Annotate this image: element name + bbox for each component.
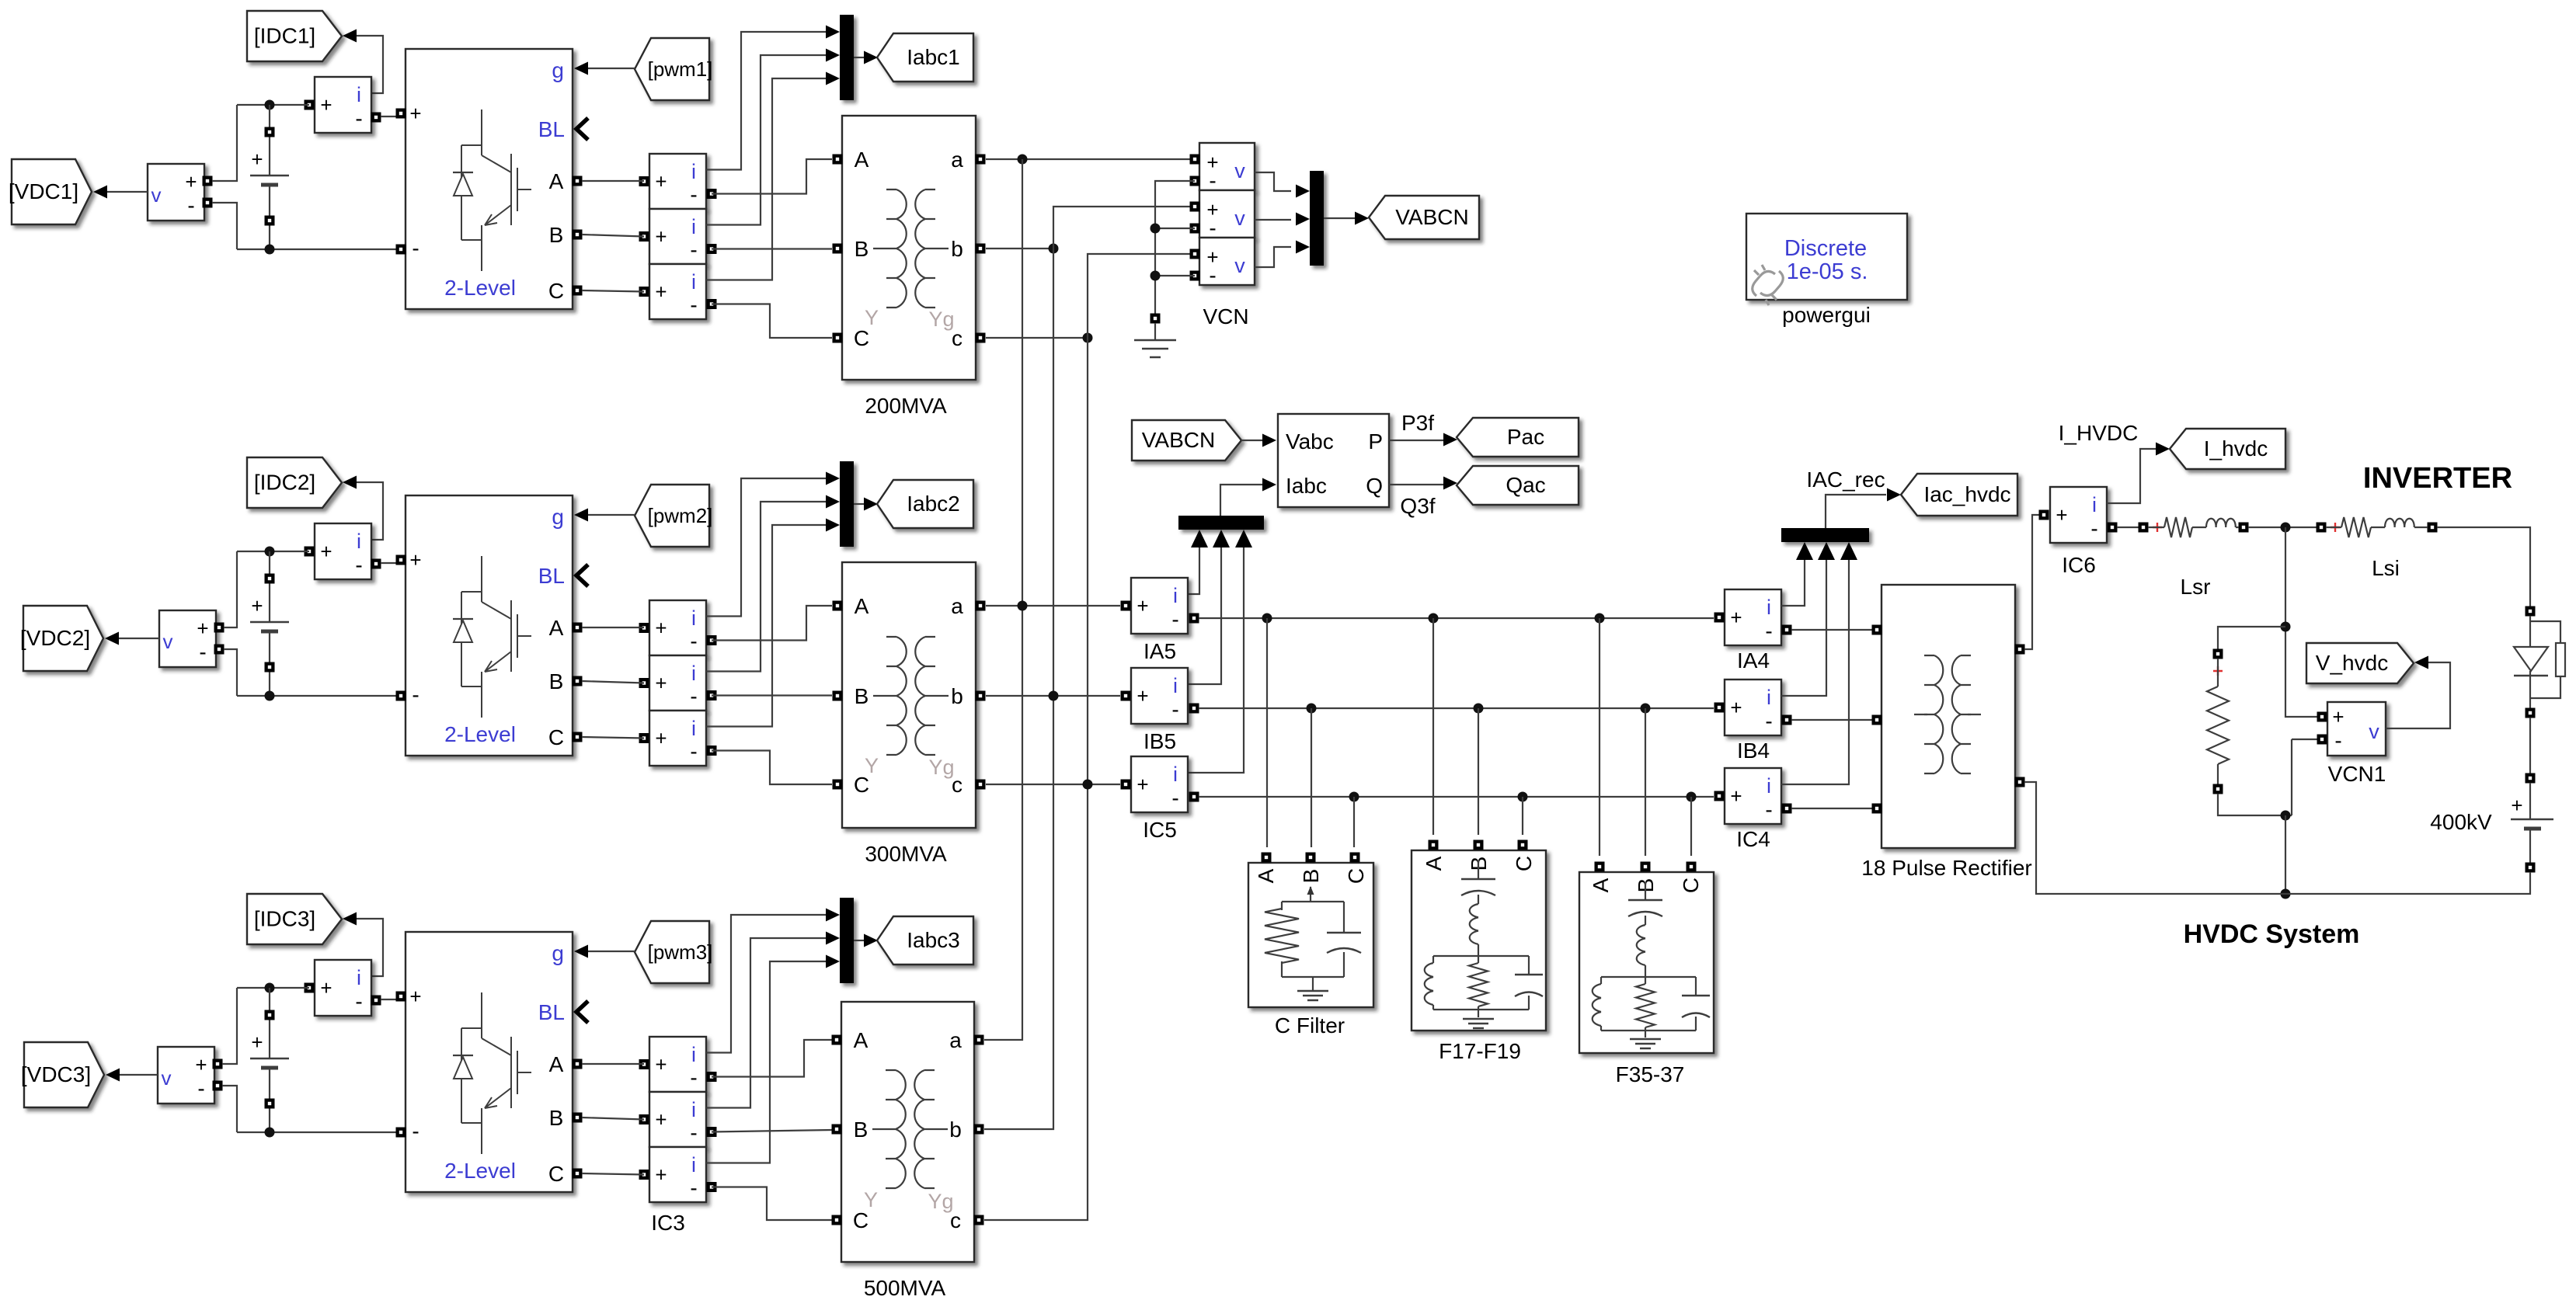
wire U1 C to IC1: [582, 290, 644, 292]
svg-text:-: -: [1209, 216, 1216, 240]
wire DC+ rail to I1: [237, 104, 309, 106]
wire VCN1 v to V_hvdc tag: [2386, 662, 2450, 728]
wire mux output to PQ Iabc input: [1220, 485, 1262, 516]
2-Level3 BL input chevron: [576, 1001, 588, 1023]
wire phase B bus IB5 to IB4: [1199, 707, 1714, 709]
wire bus C to F35-37: [1690, 797, 1692, 856]
wire IA3 to T3 A: [712, 1040, 832, 1077]
filter block F17-F19: [1412, 850, 1546, 1031]
from tag [pwm3]: [635, 921, 709, 983]
wire Lsi to diode branch: [2437, 527, 2530, 607]
svg-text:v: v: [1234, 159, 1245, 182]
svg-text:+: +: [1137, 773, 1148, 796]
current sensor IC4: [1725, 768, 1781, 824]
svg-text:-: -: [1171, 607, 1178, 631]
wire T2 c to IC5: [986, 784, 1120, 785]
2-Level converter U3: [406, 932, 573, 1192]
svg-text:[pwm2]: [pwm2]: [648, 504, 713, 527]
wire IB2 to T2 B: [712, 694, 832, 696]
goto tag Iabc2: [877, 480, 973, 528]
svg-text:C: C: [1679, 878, 1703, 893]
current sensor IA2 (phase A): [649, 600, 706, 655]
wire VCN neutral rail to ground: [1155, 181, 1195, 314]
wire T1 b (phase b): [986, 248, 1053, 249]
wire IA2 to T2 A: [712, 606, 832, 641]
svg-text:Yg: Yg: [928, 1190, 953, 1213]
svg-text:[pwm3]: [pwm3]: [648, 940, 713, 964]
svg-text:[VDC3]: [VDC3]: [21, 1062, 91, 1086]
wire I2 i-output to [IDC2]: [357, 482, 383, 540]
svg-text:C: C: [548, 1162, 564, 1186]
wire IC5 i to mux M5: [1189, 547, 1244, 773]
wire Lsr to Lsi junction: [2248, 527, 2317, 528]
svg-text:+: +: [2332, 705, 2344, 728]
voltage sensor VCN b: [1199, 190, 1255, 238]
svg-text:IA4: IA4: [1737, 648, 1770, 673]
goto tag [VDC2]: [23, 606, 103, 671]
wire U3 A to IA3: [582, 1063, 644, 1065]
svg-text:IC4: IC4: [1736, 827, 1770, 851]
svg-text:-: -: [355, 106, 362, 130]
svg-text:BL: BL: [538, 564, 565, 588]
wire IB3 i to mux3: [706, 938, 827, 1108]
svg-text:+: +: [1137, 684, 1148, 707]
svg-text:Q: Q: [1366, 474, 1383, 498]
svg-text:500MVA: 500MVA: [864, 1276, 946, 1300]
svg-text:+: +: [1730, 606, 1742, 629]
voltage sensor VCN c: [1199, 238, 1255, 285]
voltage sensor V3: [158, 1047, 214, 1104]
svg-text:P: P: [1368, 429, 1383, 454]
svg-text:g: g: [552, 58, 564, 82]
goto tag Pac: [1457, 418, 1579, 457]
wire U2 C to IC2: [582, 737, 644, 739]
svg-text:+: +: [1730, 784, 1742, 808]
wire IC6 i to I_hvdc tag: [2107, 449, 2156, 503]
svg-text:+: +: [2511, 794, 2522, 817]
wire I3 i-output to [IDC3]: [357, 919, 383, 976]
svg-text:i: i: [1173, 763, 1178, 786]
current sensor IB5: [1131, 668, 1188, 724]
svg-text:+: +: [320, 540, 332, 563]
svg-text:Y: Y: [864, 1188, 878, 1211]
svg-text:INVERTER: INVERTER: [2363, 462, 2512, 495]
goto tag [IDC3]: [247, 894, 342, 944]
svg-text:i: i: [691, 270, 696, 294]
goto tag Qac: [1457, 466, 1579, 505]
svg-text:-: -: [187, 193, 194, 217]
svg-text:+: +: [655, 672, 667, 695]
goto tag I_hvdc: [2170, 429, 2285, 469]
wire I3 to 2-Level3 + input: [381, 999, 396, 1000]
svg-text:-: -: [199, 640, 206, 664]
wire bus A to C Filter: [1266, 618, 1268, 847]
svg-text:A: A: [1422, 856, 1446, 871]
wire IA2 i to mux2: [706, 478, 827, 617]
svg-text:+: +: [251, 594, 263, 617]
svg-text:Q3f: Q3f: [1400, 494, 1435, 518]
current sensor IC2 (phase C): [649, 711, 706, 766]
DC source battery B2: [269, 551, 270, 696]
svg-text:a: a: [949, 1028, 962, 1052]
wire PQ Q to Qac: [1389, 484, 1443, 485]
svg-text:18 Pulse Rectifier: 18 Pulse Rectifier: [1861, 856, 2031, 880]
svg-text:+: +: [409, 548, 421, 572]
svg-text:[IDC1]: [IDC1]: [254, 24, 315, 48]
svg-text:i: i: [691, 160, 696, 183]
wire IA5 i to mux M5: [1189, 547, 1199, 594]
svg-text:v: v: [1234, 254, 1245, 277]
svg-text:2-Level: 2-Level: [444, 276, 516, 300]
wire T1 a to VCN (phase a): [986, 158, 1190, 160]
svg-text:i: i: [691, 215, 696, 238]
svg-text:+: +: [655, 1053, 667, 1076]
wire mux M6 to Iac_hvdc: [1826, 495, 1886, 528]
svg-text:B: B: [549, 669, 564, 693]
svg-text:2-Level: 2-Level: [444, 1159, 516, 1183]
svg-text:Lsi: Lsi: [2372, 556, 2400, 580]
from tag [pwm1]: [635, 38, 709, 100]
wire T2 a to IA5: [986, 605, 1120, 607]
voltage sensor VCN1: [2327, 702, 2386, 756]
svg-text:-: -: [197, 1076, 204, 1100]
svg-text:VCN: VCN: [1203, 304, 1248, 328]
svg-text:B: B: [549, 1106, 564, 1130]
svg-text:i: i: [357, 83, 361, 106]
svg-text:Y: Y: [865, 306, 879, 329]
svg-text:I_HVDC: I_HVDC: [2059, 421, 2139, 445]
from tag VABCN1: [1132, 420, 1241, 461]
svg-text:-: -: [355, 989, 362, 1013]
wire T1 c (phase c): [986, 337, 1088, 339]
wire bus C to F17-F19: [1522, 797, 1523, 835]
parallel resistor R1: [2213, 649, 2223, 659]
svg-text:g: g: [552, 505, 564, 529]
svg-text:i: i: [2092, 493, 2097, 516]
svg-text:C: C: [548, 279, 564, 303]
svg-text:Iabc3: Iabc3: [907, 928, 960, 952]
svg-text:-: -: [1209, 169, 1216, 193]
block 18 Pulse Rectifier: [1882, 585, 2015, 848]
wire junction to resistor R1: [2218, 627, 2285, 649]
svg-text:+: +: [1137, 594, 1148, 617]
wire rectifier DC+ to IC6: [2024, 515, 2039, 649]
goto tag V_hvdc: [2306, 643, 2414, 683]
svg-text:[IDC2]: [IDC2]: [254, 471, 315, 495]
IGBT/diode icon inside U1: [461, 109, 531, 271]
wire DC- rail from battery B2 to 2-Level2: [237, 695, 396, 697]
svg-text:+: +: [195, 1053, 207, 1076]
wire IB4 to rectifier B: [1791, 719, 1872, 721]
current sensor I3 (DC link): [315, 960, 371, 1016]
svg-text:v: v: [2369, 720, 2379, 743]
svg-text:B: B: [549, 223, 564, 247]
mux M1 (Iabc1): [840, 15, 854, 100]
svg-text:Iabc: Iabc: [1286, 474, 1327, 498]
svg-text:F17-F19: F17-F19: [1439, 1039, 1521, 1063]
wire V1 + to DC+ rail: [212, 105, 237, 181]
wire IC1 to T1 C: [712, 304, 832, 339]
from tag [pwm2]: [635, 485, 709, 547]
svg-text:i: i: [691, 1098, 696, 1121]
F35-37 internal CL + RLC to ground: [1601, 882, 1696, 1038]
svg-text:-: -: [690, 293, 697, 317]
svg-text:[VDC2]: [VDC2]: [20, 626, 90, 650]
ground G1: [1134, 340, 1176, 357]
wire [pwm1] to U1 gate g: [588, 68, 635, 69]
svg-text:BL: BL: [538, 1000, 565, 1024]
wire IA1 i to mux1: [706, 32, 827, 170]
wire R1 bottom to VCN1 - rail: [2218, 794, 2292, 815]
goto tag [VDC1]: [12, 159, 92, 224]
svg-text:IC3: IC3: [651, 1211, 685, 1235]
svg-text:-: -: [690, 1121, 697, 1145]
wire bus B to F17-F19: [1478, 708, 1479, 835]
wire IB3 to T3 B: [712, 1130, 832, 1132]
svg-text:i: i: [691, 1043, 696, 1066]
wire IC2 i to mux2: [706, 525, 827, 727]
wire bus A to F17-F19: [1432, 618, 1434, 835]
svg-text:i: i: [691, 1153, 696, 1177]
current sensor IC3 (phase C): [649, 1147, 706, 1202]
wire VCN c output to mux: [1255, 247, 1291, 267]
goto tag [IDC1]: [247, 11, 342, 61]
svg-text:-: -: [1209, 263, 1216, 287]
wire U1 B to IB1: [582, 235, 644, 237]
wire IB1 to T1 B: [712, 248, 832, 249]
svg-text:-: -: [1171, 697, 1178, 721]
svg-text:+: +: [655, 225, 667, 249]
svg-text:+: +: [655, 280, 667, 304]
goto tag VABCN: [1369, 196, 1479, 239]
svg-text:IAC_rec: IAC_rec: [1806, 468, 1885, 492]
svg-text:-: -: [1765, 619, 1772, 643]
svg-text:-: -: [690, 182, 697, 207]
svg-text:b: b: [951, 237, 963, 261]
goto tag Iabc1: [877, 33, 973, 82]
wire DC+ rail to I2: [237, 551, 309, 552]
series RL branch Lsr: [2139, 523, 2149, 533]
svg-text:+: +: [2056, 503, 2067, 527]
wire U2 B to IB2: [582, 681, 644, 683]
svg-text:+: +: [409, 985, 421, 1008]
svg-text:-: -: [2090, 516, 2097, 541]
svg-text:B: B: [1299, 869, 1323, 884]
current sensor IB4: [1725, 680, 1781, 735]
mux M4 (VABCN): [1310, 171, 1324, 266]
mux M3 (Iabc3): [840, 898, 854, 983]
svg-text:v: v: [1234, 207, 1245, 230]
svg-text:B: B: [855, 684, 869, 708]
DC source battery B3: [269, 988, 270, 1132]
svg-text:-: -: [690, 629, 697, 653]
wire I2 to 2-Level2 + input: [381, 562, 396, 564]
svg-text:+: +: [655, 1108, 667, 1131]
svg-text:powergui: powergui: [1782, 303, 1871, 327]
svg-text:I_hvdc: I_hvdc: [2204, 436, 2268, 461]
svg-text:Discrete: Discrete: [1784, 236, 1867, 261]
wire mux2 to Iabc2 tag: [854, 503, 865, 505]
wire IC3 to T3 C: [712, 1187, 832, 1221]
svg-text:a: a: [951, 594, 963, 618]
svg-text:v: v: [151, 183, 162, 207]
svg-text:IB5: IB5: [1144, 729, 1176, 753]
three-phase transformer T1 200MVA: [842, 116, 976, 380]
wire vertical phase b bus: [984, 207, 1195, 1129]
svg-text:+: +: [251, 148, 263, 171]
svg-text:C: C: [854, 326, 869, 350]
svg-text:[pwm1]: [pwm1]: [648, 57, 713, 81]
current sensor IA5: [1131, 578, 1188, 634]
wire VCN1 - to bottom node: [2292, 739, 2317, 815]
power measurement block PQ: [1278, 414, 1389, 507]
svg-text:-: -: [412, 683, 419, 707]
svg-text:P3f: P3f: [1401, 411, 1434, 435]
svg-text:i: i: [691, 607, 696, 630]
svg-text:Iabc1: Iabc1: [907, 45, 960, 69]
three-phase transformer T2 300MVA: [842, 562, 976, 828]
svg-text:IA5: IA5: [1144, 639, 1176, 663]
svg-text:+: +: [251, 1031, 263, 1054]
svg-text:IC6: IC6: [2062, 553, 2096, 577]
svg-text:-: -: [2334, 728, 2341, 753]
svg-text:F35-37: F35-37: [1616, 1062, 1685, 1086]
svg-text:C Filter: C Filter: [1275, 1013, 1345, 1038]
wire U3 C to IC3: [582, 1173, 644, 1175]
wire phase A bus IA5 to IA4: [1199, 617, 1714, 619]
current sensor IC5: [1131, 756, 1188, 812]
svg-text:i: i: [1767, 774, 1771, 798]
three-phase transformer T3 500MVA: [841, 1002, 974, 1262]
svg-text:300MVA: 300MVA: [865, 842, 947, 866]
wire mux to VABCN tag: [1324, 217, 1356, 219]
wire junction to parallel R and VCN1: [2285, 527, 2317, 717]
wire U3 B to IB3: [582, 1118, 644, 1120]
svg-text:-: -: [412, 1119, 419, 1143]
svg-text:i: i: [691, 662, 696, 685]
svg-text:A: A: [1254, 868, 1278, 883]
C Filter internal RC to ground: [1282, 887, 1344, 992]
svg-text:g: g: [552, 941, 564, 965]
filter block C Filter: [1248, 863, 1373, 1007]
svg-text:i: i: [1173, 584, 1178, 607]
wire mux1 to Iabc1 tag: [854, 57, 865, 58]
current sensor IA3 (phase A): [649, 1037, 706, 1092]
svg-text:[IDC3]: [IDC3]: [254, 907, 315, 931]
svg-text:+: +: [185, 170, 197, 193]
goto tag [IDC2]: [247, 457, 342, 508]
wire V3 + to DC+ rail: [222, 988, 237, 1064]
svg-text:i: i: [1767, 686, 1771, 709]
wire I1 i-output to [IDC1]: [357, 36, 383, 93]
wire bus A to F35-37: [1599, 618, 1600, 856]
svg-text:i: i: [357, 530, 361, 553]
IGBT/diode icon inside U2: [461, 556, 531, 718]
wire IA1 to T1 A: [712, 159, 832, 194]
wire IC2 to T2 C: [712, 751, 832, 785]
wire I1 to 2-Level1 + input: [381, 116, 396, 117]
wire mux3 to Iabc3 tag: [854, 940, 865, 941]
svg-text:-: -: [1765, 798, 1772, 822]
wire IA3 i to mux3: [706, 915, 827, 1053]
wire V2 output to [VDC2]: [118, 638, 159, 639]
svg-text:VCN1: VCN1: [2328, 762, 2386, 786]
goto tag [VDC3]: [24, 1042, 104, 1107]
svg-text:A: A: [855, 594, 869, 618]
wire DC+ rail to I3: [237, 987, 309, 989]
wire VCN a output to mux: [1255, 172, 1291, 191]
wire bottom node to DC return rail: [2285, 815, 2286, 894]
svg-text:2-Level: 2-Level: [444, 722, 516, 746]
svg-text:-: -: [412, 236, 419, 260]
svg-text:Y: Y: [865, 754, 879, 777]
svg-text:Yg: Yg: [928, 308, 954, 331]
wire IA4 i to mux M6: [1781, 558, 1805, 606]
svg-text:A: A: [854, 1028, 869, 1052]
svg-text:+: +: [1730, 696, 1742, 719]
wire DC- rail from battery B3 to 2-Level3: [237, 1131, 396, 1133]
wire DC- rail from battery B1 to 2-Level1: [237, 249, 396, 250]
DC source battery 400kV: [2526, 773, 2536, 784]
svg-text:+: +: [320, 93, 332, 116]
wire vertical phase c bus: [984, 254, 1195, 1220]
svg-text:+: +: [655, 1163, 667, 1187]
svg-text:i: i: [1173, 674, 1178, 697]
svg-text:Yg: Yg: [928, 756, 954, 779]
2-Level2 BL input chevron: [576, 565, 588, 586]
svg-text:Pac: Pac: [1507, 425, 1544, 449]
current sensor IC1 (phase C): [649, 264, 706, 319]
wire diode to battery 400kV: [2529, 718, 2531, 773]
svg-text:+: +: [655, 617, 667, 640]
svg-text:b: b: [951, 684, 963, 708]
svg-text:Lsr: Lsr: [2181, 575, 2211, 599]
svg-text:-: -: [1171, 786, 1178, 810]
svg-text:VABCN: VABCN: [1142, 428, 1215, 452]
current sensor IB1 (phase B): [649, 209, 706, 264]
wire V3 - to DC- rail: [222, 1086, 237, 1132]
wire VABCN to PQ Vabc input: [1241, 440, 1262, 441]
svg-text:IC5: IC5: [1143, 818, 1177, 842]
svg-text:+: +: [197, 617, 208, 640]
goto tag Iac_hvdc: [1901, 474, 2017, 516]
wire [pwm2] to U2 gate g: [588, 514, 635, 516]
svg-text:A: A: [1589, 878, 1613, 892]
wire IB1 i to mux1: [706, 55, 827, 225]
wire IC4 to rectifier C: [1791, 808, 1872, 809]
svg-text:v: v: [162, 1066, 172, 1090]
svg-text:Iabc2: Iabc2: [907, 492, 960, 516]
svg-text:-: -: [690, 1065, 697, 1090]
mux M6 (IAC_rec): [1781, 528, 1869, 542]
wire IC1 i to mux1: [706, 78, 827, 280]
wire bus B to F35-37: [1645, 708, 1646, 856]
svg-text:V_hvdc: V_hvdc: [2316, 651, 2388, 675]
wire V3 output to [VDC3]: [119, 1074, 158, 1076]
svg-text:Vabc: Vabc: [1286, 429, 1334, 454]
wire V2 - to DC- rail: [224, 649, 237, 696]
svg-text:-: -: [1765, 709, 1772, 733]
wire U1 A to IA1: [582, 180, 644, 182]
svg-text:-: -: [690, 1176, 697, 1200]
svg-text:Qac: Qac: [1506, 473, 1545, 497]
IGBT/diode icon inside U3: [461, 992, 531, 1154]
goto tag Iabc3: [877, 916, 973, 965]
svg-text:BL: BL: [538, 117, 565, 141]
2-Level converter U2: [406, 495, 573, 756]
voltage sensor V1: [148, 164, 204, 221]
svg-text:A: A: [855, 148, 869, 172]
